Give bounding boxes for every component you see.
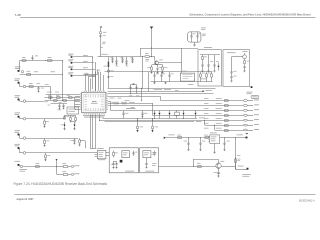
label L1 (103, 31, 106, 34)
U3 pin stubs (209, 136, 210, 138)
bus line net RX1 (108, 88, 216, 90)
label (126, 65, 129, 68)
label C27 (214, 171, 217, 174)
wire (19, 165, 21, 167)
capacitor C21 (113, 162, 115, 164)
connector pad P4 (71, 75, 73, 77)
capacitor C24 (145, 164, 147, 165)
label AF2 end (196, 120, 202, 123)
net name text (74, 164, 80, 167)
net pad (251, 86, 253, 88)
svg-text:August 24, 2007: August 24, 2007 (17, 198, 35, 201)
resistor R26 (205, 137, 209, 139)
transistor loop top rail (193, 159, 218, 161)
resistor R22 (36, 166, 40, 168)
connector pad J7 (18, 164, 20, 166)
net circle (71, 165, 73, 167)
net row 7 resistor (224, 130, 228, 132)
ground (243, 71, 245, 72)
net label (83, 66, 88, 69)
wire (100, 34, 102, 36)
resistor R19 (44, 138, 46, 140)
labels in box1 (204, 56, 207, 59)
label R23 (62, 162, 66, 165)
connector pad P2 (71, 62, 73, 64)
wire rail (111, 56, 145, 58)
resistor R15 (57, 97, 61, 99)
resistor R6 (162, 65, 164, 67)
ground (217, 176, 219, 177)
label R28 (197, 162, 201, 165)
labels cluster (48, 94, 51, 97)
resistor R20 (79, 138, 81, 140)
net row 3 ferrite bead (243, 109, 247, 111)
label R22 (36, 162, 40, 165)
label (144, 112, 147, 115)
IC bottom wires (90, 115, 92, 149)
wire side feed (81, 140, 86, 142)
label Q1 (159, 59, 162, 62)
net row 2 label left (204, 102, 209, 105)
testpoint circle (23, 137, 26, 140)
wire power chain (100, 28, 102, 32)
capacitor C8 (243, 66, 245, 67)
net row 5 wire (100, 120, 244, 122)
capacitor C12 (59, 104, 61, 106)
net row 1 ferrite bead (243, 100, 247, 102)
connector pad P3 (71, 68, 73, 70)
label C25 (184, 140, 187, 143)
label (169, 134, 175, 137)
labels (202, 72, 205, 75)
wire (100, 36, 102, 56)
power flag VCC1 (100, 26, 101, 27)
wire (73, 69, 95, 71)
resistor R28 (198, 166, 202, 168)
net row 3 net name (254, 108, 259, 111)
connector pad J4 (18, 116, 20, 118)
label R29 (177, 134, 181, 137)
resistor R10 (202, 55, 204, 57)
label (162, 73, 165, 76)
wire (151, 29, 153, 57)
capacitor C20 (133, 151, 135, 153)
net row 3 wire (111, 110, 244, 112)
filter block A outline (109, 148, 138, 173)
IC U200 pins top (84, 91, 105, 93)
signal arrow into wire (164, 137, 166, 139)
net label (20, 168, 28, 171)
net labels top left (201, 27, 206, 30)
wire down (50, 87, 52, 101)
net label (205, 89, 212, 92)
label 7-xx (243, 50, 248, 53)
wire from U3 right (222, 137, 236, 139)
label C20 (135, 151, 138, 154)
label R3 (48, 56, 52, 59)
wire (98, 56, 111, 58)
net name text (242, 173, 251, 176)
resistor R29 (178, 137, 182, 139)
testpoint circle (23, 100, 26, 103)
labels (129, 95, 133, 98)
junction dots on AF lines (182, 117, 185, 120)
capacitor C30 (108, 76, 110, 79)
label on link (131, 106, 135, 109)
vertical feeders right of IC (142, 57, 144, 89)
capacitor (126, 57, 128, 61)
net arrow (203, 90, 205, 92)
rail top (105, 71, 213, 73)
label C30 (110, 75, 113, 78)
IC left pin stubs (75, 96, 80, 98)
resistor R9 (211, 72, 213, 74)
net row 7 net name (254, 128, 259, 131)
IC U200 pins left (80, 93, 82, 109)
wire (19, 117, 21, 119)
capacitor C23 (154, 151, 156, 153)
opamp U6 box (143, 151, 151, 158)
wire Q2 collector to rail (221, 166, 236, 168)
wire (146, 158, 148, 164)
Q2 emitter down (218, 168, 220, 172)
capacitor C11 (38, 87, 40, 88)
wire collector right (158, 62, 181, 64)
net label above IC (85, 72, 89, 75)
label R21 (47, 154, 50, 157)
wire (73, 75, 96, 77)
label (131, 56, 134, 59)
net pad TP2 (247, 168, 249, 170)
net row 1 label left (204, 97, 209, 100)
junction (61, 73, 64, 76)
component dark chip (120, 160, 123, 163)
wire emitter (157, 65, 159, 68)
filter box FL2 (67, 107, 79, 114)
label pair right (146, 58, 150, 61)
label (111, 56, 114, 59)
net row 4 label left (204, 112, 209, 115)
resistor R16 (69, 97, 73, 99)
junction (94, 61, 97, 64)
resistor R27 (235, 157, 237, 159)
net name text (74, 172, 80, 175)
label R24 (62, 170, 66, 173)
net row 5 net name (254, 118, 259, 121)
ground (111, 62, 113, 63)
footer rule (15, 194, 316, 196)
U4 inner text (99, 151, 104, 154)
capacitor (116, 57, 118, 61)
label C29 (103, 34, 106, 37)
vertical rail x=235 (235, 138, 237, 169)
label P3 (68, 65, 73, 68)
wire out (236, 169, 247, 171)
label AF1 end (199, 117, 205, 120)
label TP1 (237, 134, 244, 137)
net row 4 ferrite bead (243, 114, 247, 116)
diode D2 (154, 111, 156, 113)
label J3 (15, 94, 21, 97)
capacitor C9 (230, 72, 232, 73)
net row 6 wire (205, 125, 244, 127)
label TP2 (238, 165, 244, 168)
ground (115, 64, 117, 65)
labels on pin wire (47, 91, 52, 94)
net label (83, 73, 88, 76)
resistor R17b (63, 100, 67, 102)
svg-text:Figure 7-24. HUD4022A/HUD4025: Figure 7-24. HUD4022A/HUD4025B Receiver … (14, 182, 108, 186)
label R18 (46, 120, 49, 123)
value label (37, 82, 40, 85)
sub-block box outline (198, 50, 222, 86)
label C1 (35, 55, 38, 58)
sub-block box2 outline (223, 50, 250, 87)
labels (66, 115, 69, 118)
net label (83, 60, 88, 63)
ground (187, 150, 189, 151)
value labels (34, 70, 38, 73)
label J6 (15, 143, 21, 146)
transistor Q2 (216, 163, 221, 168)
connector pad J6 (18, 147, 20, 149)
net row 1 wire (161, 100, 244, 102)
junction (61, 59, 64, 62)
IC U200 body (82, 92, 106, 112)
junction (234, 168, 237, 171)
wire (73, 62, 94, 64)
testpoint circle (23, 117, 26, 120)
capacitor (112, 57, 114, 59)
resistor R12 (29, 86, 33, 88)
resistor R2 (22, 60, 26, 62)
capacitor C1 (31, 57, 33, 58)
ground (150, 72, 152, 73)
wire (19, 100, 21, 102)
diode D1 (218, 66, 220, 68)
feeder row4 (108, 103, 153, 105)
capacitor C16 (74, 138, 76, 140)
polarized capacitor C18 (137, 118, 139, 126)
net row 6 net name (254, 123, 259, 126)
junction (223, 136, 226, 139)
capacitor C7 (156, 68, 158, 69)
cluster rail C (51, 103, 68, 105)
resistor R4 (145, 56, 149, 58)
net row 6 resistor (224, 125, 228, 127)
label FL1 (182, 70, 187, 73)
capacitor (123, 111, 125, 114)
text rows in block B (152, 151, 156, 154)
net row 3 resistor (224, 110, 228, 112)
page header: rule (20, 17, 316, 19)
label chain (102, 41, 105, 44)
rail bottom (151, 81, 213, 83)
capacitor C28 (224, 138, 226, 143)
bus line AF1 (103, 118, 198, 120)
opamp U5 box (122, 151, 129, 158)
svg-text:Schematics, Component Location: Schematics, Component Location Diagrams,… (189, 13, 311, 16)
capacitor C26 (200, 138, 202, 143)
net label (101, 53, 108, 56)
bus line AF2 (105, 121, 195, 123)
resistor R24 (57, 174, 63, 176)
label (125, 112, 128, 115)
audio IC U4 box (97, 150, 106, 158)
wire from block B to Q2 (159, 166, 216, 168)
label Q2 (220, 160, 224, 163)
wire to left cluster (62, 61, 64, 101)
labels (202, 33, 206, 36)
net label (83, 54, 88, 57)
net row 7 ferrite bead (243, 129, 247, 131)
text labels under bus (110, 97, 115, 100)
net circle (71, 173, 73, 175)
resistor R7 (200, 72, 202, 74)
IC U200 label (92, 100, 97, 103)
connector pad P1 (71, 56, 73, 58)
diode D2b (159, 111, 161, 113)
wire (19, 61, 21, 71)
cluster rail A (45, 97, 80, 99)
label J1 (15, 66, 21, 69)
link wire (126, 108, 135, 110)
svg-text:7-38: 7-38 (15, 13, 21, 17)
label J2 (15, 78, 21, 81)
label R13 (27, 70, 31, 73)
capacitor (169, 72, 171, 75)
capacitor (122, 57, 124, 59)
labels near rail (237, 154, 241, 157)
loop left vertical (193, 159, 195, 166)
bus line net RX2 (108, 91, 203, 93)
wire bend into subcircuit (90, 148, 96, 150)
bus line net RX4 (108, 96, 161, 98)
bus line net RX3 (108, 93, 214, 95)
ground (125, 64, 127, 65)
label C26 (202, 140, 205, 143)
label R25 (115, 152, 118, 155)
capacitor C25 (188, 138, 190, 143)
transistor Q1 (155, 61, 159, 65)
wire from pad J1 row (20, 74, 63, 76)
labels under bus RX1 (154, 88, 163, 91)
wire (19, 148, 21, 153)
U5 inner text (123, 152, 127, 155)
filter block B outline (140, 148, 159, 173)
label R4 (145, 52, 149, 55)
label (171, 73, 174, 76)
label U3 (210, 132, 217, 135)
capacitor C29 (100, 35, 102, 38)
label block A (125, 170, 134, 173)
net row 2 ferrite bead (243, 104, 247, 106)
wire (231, 57, 233, 72)
wire (181, 48, 183, 73)
inductor L2 (107, 70, 109, 72)
testpoint circle (23, 152, 26, 155)
oscillator Y1 (243, 55, 247, 59)
IC U3 box (210, 135, 220, 144)
IC U200 pins bottom (84, 113, 105, 115)
diode D6 (64, 122, 66, 125)
label U4 (97, 147, 104, 150)
labels (71, 139, 74, 142)
wire (113, 161, 117, 163)
label block B (145, 170, 154, 173)
diode D4 (183, 110, 185, 113)
wire IC bottom to AF bus (99, 114, 101, 120)
power flag VCC2 (150, 27, 153, 29)
resistor R8 (206, 72, 208, 74)
ground (193, 45, 195, 46)
net row 7 wire (215, 130, 244, 132)
U6 inner text (144, 152, 149, 155)
ground (199, 150, 201, 151)
capacitor C13 (63, 104, 65, 106)
feeder row3 from IC (108, 101, 111, 103)
net row 2 resistor (224, 105, 228, 107)
resistor R3 (48, 60, 53, 62)
resistor R13 (27, 74, 31, 76)
filter loop outline (188, 32, 201, 42)
label C28 (227, 140, 230, 143)
net row 4 resistor (224, 115, 228, 117)
resistor R11 (244, 59, 246, 61)
bracket label under rail (188, 83, 193, 86)
testpoint circle (20, 165, 22, 167)
ground (201, 71, 203, 72)
grounds below rail (154, 81, 156, 84)
labels (147, 66, 150, 69)
connector pad J2 (18, 82, 20, 84)
IC pin wire long (46, 94, 80, 96)
capacitor C4 (202, 62, 204, 65)
bus verticals to IC top (92, 57, 94, 89)
label box2 top (227, 51, 236, 54)
net row 5 label left (204, 117, 209, 120)
label (156, 73, 159, 76)
capacitor (161, 72, 163, 75)
net row 1 resistor (224, 100, 228, 102)
label L2 (110, 70, 113, 73)
feeder bends rows 6-7 (204, 120, 206, 125)
resistor R14 (49, 97, 53, 99)
polarized capacitor C19 (152, 118, 154, 126)
junction (150, 55, 153, 58)
resistor network right (64, 115, 66, 118)
resistor R18 (44, 119, 46, 121)
wire (19, 83, 21, 87)
net row 4 net name (254, 113, 259, 116)
diode D7 (74, 125, 76, 127)
connector pad J1 (18, 70, 20, 72)
resistor R25 (113, 151, 115, 153)
IC top pin wires (85, 75, 87, 91)
capacitor C3 (196, 36, 198, 37)
wire (232, 56, 244, 58)
label R2 (22, 56, 26, 59)
feeder vertical from bus1 (141, 88, 143, 100)
labels box2 (234, 70, 237, 73)
U4 pin stubs (95, 152, 98, 154)
resistor R23 (57, 166, 63, 168)
caps on bus RX3 (130, 87, 132, 94)
FL2 inner text (69, 108, 77, 111)
rail (200, 54, 220, 56)
junction (129, 92, 132, 95)
net label (247, 91, 253, 94)
